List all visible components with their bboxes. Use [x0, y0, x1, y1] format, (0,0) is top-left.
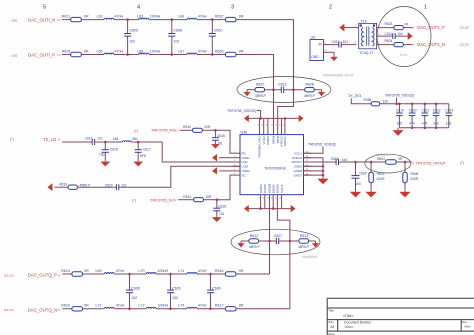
capacitor C620	[115, 184, 117, 190]
svg-text:]: ]	[255, 109, 256, 113]
svg-text:(12,13): (12,13)	[460, 43, 469, 47]
capacitor C608	[171, 20, 173, 34]
wire SC to pin	[217, 175, 233, 200]
wire seg	[197, 54, 225, 56]
svg-text:45R9-P: 45R9-P	[249, 245, 260, 249]
ferrite bead FB59	[371, 102, 380, 106]
wire SC seg	[204, 199, 217, 201]
svg-text:Title: Title	[328, 309, 334, 313]
svg-text:L62: L62	[97, 14, 103, 18]
svg-text:L70: L70	[139, 269, 145, 273]
svg-text:(10): (10)	[12, 54, 18, 58]
svg-text:DAC_OUT2_P: DAC_OUT2_P	[417, 25, 445, 30]
svg-text:R619: R619	[59, 183, 67, 187]
wire PD to pin	[215, 130, 232, 153]
svg-text:0R: 0R	[239, 304, 244, 308]
svg-text:A4: A4	[330, 325, 334, 329]
inductor L69	[104, 273, 114, 274]
svg-text:R604: R604	[377, 157, 385, 161]
capacitor C624	[355, 162, 357, 176]
resistor R605	[370, 162, 372, 172]
wire SC	[178, 199, 193, 201]
node junction C628 bottom	[128, 308, 131, 311]
wire seg	[149, 19, 187, 21]
inductor L63	[139, 18, 149, 19]
svg-text:47nH: 47nH	[198, 49, 207, 53]
svg-text:FB59: FB59	[364, 98, 372, 102]
wire PD	[180, 129, 193, 131]
svg-text:120: 120	[383, 100, 389, 104]
svg-text:T10: T10	[361, 20, 367, 24]
wire seg	[197, 273, 225, 275]
op-amp U40 TRF3705IRGE body	[240, 135, 304, 195]
resistor R619	[55, 186, 69, 188]
svg-text:47nH: 47nH	[116, 269, 125, 273]
gnd bus right	[322, 158, 324, 179]
wire BBIP jog	[278, 90, 294, 135]
svg-text:C616: C616	[217, 134, 225, 138]
wire C620 to LOM	[119, 166, 240, 187]
svg-text:(7): (7)	[132, 199, 136, 203]
wire VCC1 riser	[304, 147, 324, 153]
svg-text:C630: C630	[212, 287, 221, 291]
wire to DAC_OUT2_N	[403, 44, 412, 46]
svg-text:C626: C626	[218, 204, 226, 208]
capacitor C609	[127, 20, 129, 34]
svg-text:R623: R623	[385, 22, 393, 26]
top gnd rail	[249, 117, 300, 119]
svg-text:100nH: 100nH	[158, 304, 169, 308]
wire decoupling rail	[380, 103, 449, 105]
svg-text:105: 105	[396, 121, 402, 125]
svg-text:C614: C614	[445, 109, 453, 113]
ground C624	[355, 191, 357, 192]
capacitor C620	[411, 104, 413, 113]
ground arrow GND1	[216, 157, 218, 159]
svg-text:C621: C621	[421, 109, 429, 113]
wire TX_LO	[62, 141, 92, 143]
ground arrow GND2	[216, 170, 218, 172]
capacitor C614	[91, 139, 93, 145]
svg-text:#######(##) ## ##: #######(##) ## ##	[323, 73, 353, 77]
svg-text:0R: 0R	[84, 14, 89, 18]
svg-text:TX_3V3: TX_3V3	[348, 94, 361, 98]
capacitor C630	[210, 274, 212, 290]
svg-text:<Rev: <Rev	[464, 325, 472, 329]
wire DAC_OUTQ_P	[62, 273, 65, 275]
svg-text:##(#)###: ##(#)###	[376, 153, 390, 157]
svg-text:1p0: 1p0	[342, 158, 348, 162]
svg-text:47nH: 47nH	[198, 269, 207, 273]
annotation ellipse BBI match	[237, 77, 331, 103]
svg-text:C615: C615	[110, 148, 118, 152]
svg-text:510R: 510R	[377, 177, 386, 181]
node junction C610 top	[211, 18, 214, 21]
svg-text:0R: 0R	[239, 49, 244, 53]
svg-text:C620: C620	[409, 109, 417, 113]
svg-text:R625: R625	[62, 49, 71, 53]
ground arrow right BBQ	[309, 240, 316, 242]
wire DAC_OUTI_P	[62, 54, 65, 56]
svg-text:100nH: 100nH	[158, 269, 169, 273]
svg-text:(12,13): (12,13)	[4, 308, 14, 312]
ground R606	[404, 183, 406, 191]
node R605 junction	[370, 161, 373, 164]
svg-text:102: 102	[172, 296, 178, 300]
inductor L65	[104, 53, 114, 54]
title block frame	[327, 298, 474, 335]
transformer T10	[359, 23, 377, 48]
wire seg	[131, 141, 162, 143]
svg-text:DAC_OUTI_N: DAC_OUTI_N	[28, 17, 55, 22]
ground arrow left BBQ	[241, 240, 249, 242]
svg-text:]: ]	[413, 94, 414, 98]
svg-text:L72: L72	[96, 304, 102, 308]
ground R605	[370, 183, 372, 191]
inductor L67	[187, 53, 197, 54]
ground arrow right BBI	[314, 89, 321, 91]
pin 1 T10	[377, 27, 396, 29]
wire to BBIP riser	[236, 20, 293, 90]
svg-text:4: 4	[137, 5, 140, 11]
annotation ellipse BBQ match	[231, 229, 320, 255]
svg-text:5: 5	[43, 5, 46, 11]
capacitor C615	[104, 142, 106, 150]
svg-text:474: 474	[409, 121, 415, 125]
pin 3 T10	[377, 44, 396, 46]
capacitor C628	[129, 274, 131, 290]
bottom gnd rail	[249, 208, 292, 210]
svg-text:102: 102	[129, 39, 135, 43]
svg-text:(7): (7)	[134, 129, 138, 133]
svg-text:0R: 0R	[398, 157, 403, 161]
node BBQP junction	[289, 240, 292, 243]
ground arrow right C611	[407, 35, 409, 37]
node junction C608 bottom	[171, 53, 174, 56]
capacitor C612	[327, 44, 339, 46]
node BBQM junction	[268, 240, 271, 243]
svg-text:Rev: Rev	[462, 320, 468, 324]
capacitor C610	[211, 20, 213, 34]
svg-text:39n: 39n	[132, 137, 138, 141]
capacitor C627	[275, 238, 277, 245]
svg-text:R616: R616	[215, 269, 224, 273]
node C624 junction	[354, 161, 357, 164]
resistor R617	[225, 308, 236, 310]
svg-text:101: 101	[343, 40, 349, 44]
svg-text:47nH: 47nH	[115, 14, 124, 18]
svg-text:VCC1: VCC1	[294, 151, 302, 155]
ground U9	[333, 56, 335, 58]
svg-text:C617: C617	[143, 148, 151, 152]
wire seg	[114, 273, 146, 275]
node junction C629 bottom	[169, 308, 172, 311]
capacitor C617	[137, 142, 139, 150]
wire RFOUT	[304, 161, 337, 163]
svg-text:C608: C608	[173, 28, 182, 32]
svg-text:102: 102	[173, 39, 179, 43]
wire row to BBQP	[236, 308, 290, 310]
ground decoupling	[397, 128, 399, 131]
resistor R616	[225, 273, 236, 275]
svg-text:0R: 0R	[84, 304, 89, 308]
resistor R621	[65, 19, 104, 21]
resistor R606	[404, 162, 406, 172]
capacitor C622	[435, 104, 437, 113]
wire seg	[149, 54, 187, 56]
svg-text:R624: R624	[385, 39, 393, 43]
node junction C609 top	[126, 18, 129, 21]
resistor R614	[65, 273, 104, 275]
node PD junction	[214, 129, 217, 132]
svg-text:TRF3705_RFOUT: TRF3705_RFOUT	[416, 161, 447, 165]
svg-text:GND11: GND11	[283, 136, 287, 146]
wire seg	[197, 19, 225, 21]
svg-text:TRF3705IRGE: TRF3705IRGE	[264, 166, 287, 170]
inductor L68	[122, 141, 131, 142]
capacitor C623	[335, 159, 337, 165]
node C617 junction	[137, 141, 140, 144]
svg-text:2: 2	[329, 5, 332, 11]
capacitor C613	[280, 86, 282, 93]
svg-text:GND: GND	[311, 55, 319, 59]
ground arrow gnd bus	[322, 177, 324, 180]
wire DAC_OUTI_N	[62, 19, 65, 21]
pin 2 U9 to ground	[324, 52, 335, 55]
svg-text:GND7: GND7	[294, 173, 303, 177]
svg-text:TRF3705_VDD33: TRF3705_VDD33	[308, 143, 335, 147]
capacitor C616	[214, 130, 216, 137]
svg-text:L63: L63	[137, 14, 143, 18]
node junction C609 bottom	[126, 53, 129, 56]
junction gnd bus	[322, 165, 325, 168]
capacitor C621	[424, 104, 426, 113]
svg-text:3: 3	[231, 5, 234, 11]
right pin stubs U40	[304, 152, 312, 154]
svg-text:10n: 10n	[397, 32, 403, 36]
svg-text:(7): (7)	[10, 138, 14, 142]
svg-text:45R9-P: 45R9-P	[255, 94, 266, 98]
wire BBQP jog	[277, 195, 290, 309]
annotation ellipse RFOUT	[365, 154, 411, 173]
svg-text:C629: C629	[172, 287, 181, 291]
svg-text:GND5: GND5	[263, 184, 267, 193]
ground C617	[137, 160, 139, 163]
capacitor C614	[448, 104, 450, 113]
regulator U9 box	[310, 40, 324, 61]
wire to DAC_OUT2_P	[403, 27, 412, 29]
svg-text:C613: C613	[278, 83, 286, 87]
svg-text:C620: C620	[105, 183, 113, 187]
wire seg	[95, 141, 123, 143]
inductor L70	[146, 273, 156, 274]
wire seg	[114, 308, 146, 310]
svg-text:C609: C609	[129, 28, 138, 32]
svg-text:0R: 0R	[239, 14, 244, 18]
svg-text:47nH: 47nH	[198, 14, 207, 18]
svg-text:R606: R606	[411, 172, 419, 176]
wire row to BBQM	[236, 273, 269, 275]
svg-text:]: ]	[335, 143, 336, 147]
svg-text:U9: U9	[311, 36, 316, 40]
wire seg	[114, 19, 139, 21]
svg-text:C612: C612	[332, 40, 340, 44]
node junction C630 top	[209, 273, 212, 276]
inductor L74	[187, 307, 197, 308]
resistor R623	[394, 26, 404, 30]
inductor L66	[139, 53, 149, 54]
resistor R624	[394, 43, 404, 47]
resistor R626	[225, 54, 236, 56]
inductor L64	[187, 18, 197, 19]
svg-text:L69: L69	[96, 269, 102, 273]
svg-text:R622: R622	[215, 14, 224, 18]
rail stubs to IC top pins	[259, 118, 261, 134]
ground arrow R619	[51, 186, 53, 188]
svg-text:C610: C610	[214, 28, 223, 32]
svg-text:L66: L66	[137, 49, 143, 53]
inductor L62	[104, 18, 114, 19]
svg-text:L64: L64	[178, 14, 184, 18]
ground arrow T10 pin5	[343, 27, 345, 29]
wire PD seg	[203, 129, 216, 131]
node junction C608 top	[171, 18, 174, 21]
wire BBIM riser	[273, 90, 275, 135]
svg-text:0R: 0R	[84, 49, 89, 53]
svg-text:‹‹: ‹‹	[412, 25, 415, 30]
node BBIM junction	[272, 88, 275, 91]
capacitor C626	[216, 200, 218, 209]
svg-text:C614: C614	[85, 136, 93, 140]
svg-text:C619: C619	[396, 109, 404, 113]
svg-text:15p: 15p	[99, 153, 105, 157]
svg-text:0R: 0R	[239, 269, 244, 273]
junction brail	[259, 207, 262, 210]
node junction C628 top	[128, 273, 131, 276]
svg-text:L73: L73	[139, 304, 145, 308]
wire seg	[114, 54, 139, 56]
ground arrow left BBI	[247, 89, 255, 91]
ground C616	[214, 143, 216, 144]
svg-text:101: 101	[97, 136, 103, 140]
ground C626	[216, 216, 218, 219]
inductor L71	[187, 273, 197, 274]
svg-text:R610: R610	[183, 125, 191, 129]
svg-text:1n0: 1n0	[355, 182, 361, 186]
capacitor C611	[392, 33, 394, 39]
annotation circle around balun output	[377, 7, 431, 67]
svg-text:C627: C627	[274, 234, 282, 238]
wire TX_LO to LOP	[162, 142, 240, 162]
svg-text:#####(##): #####(##)	[302, 255, 317, 259]
resistor R625	[65, 54, 104, 56]
svg-text:TC4Q-1T: TC4Q-1T	[359, 51, 373, 55]
svg-text:››: ››	[57, 308, 61, 313]
svg-text:L67: L67	[178, 49, 184, 53]
svg-text:L68: L68	[113, 137, 119, 141]
svg-text:47nH: 47nH	[116, 304, 125, 308]
svg-text:103: 103	[446, 121, 452, 125]
capacitor C629	[170, 274, 172, 290]
node SC junction	[216, 198, 219, 201]
wire seg	[77, 186, 116, 188]
svg-text:(12,13): (12,13)	[460, 26, 469, 30]
svg-text:(7): (7)	[460, 161, 464, 165]
wire seg	[265, 89, 282, 91]
svg-text:10R: 10R	[205, 195, 212, 199]
wire label riser	[396, 98, 398, 104]
svg-text:L65: L65	[97, 49, 103, 53]
gnd arrow rail left	[248, 117, 250, 119]
gnd arrow brail right	[290, 208, 292, 210]
resistor R612	[249, 239, 259, 243]
pin 5 T10	[345, 27, 359, 29]
svg-text:Document Number: Document Number	[344, 321, 372, 325]
bottom pin stubs U40	[260, 195, 262, 209]
svg-text:R628: R628	[306, 83, 314, 87]
svg-text:47nH: 47nH	[198, 304, 207, 308]
capacitor C619	[398, 104, 400, 113]
svg-text:1: 1	[424, 5, 427, 11]
svg-text:C622: C622	[433, 109, 441, 113]
svg-text:45R9-P: 45R9-P	[304, 94, 315, 98]
wire TX_3V3 stub	[351, 98, 371, 104]
resistor R615	[65, 308, 104, 310]
svg-text:R615: R615	[61, 304, 70, 308]
wire seg	[396, 161, 411, 163]
svg-text:U40: U40	[241, 130, 248, 134]
svg-text:C611: C611	[385, 32, 393, 36]
svg-text:0R: 0R	[84, 269, 89, 273]
svg-text:10R: 10R	[204, 125, 211, 129]
svg-text:GND3: GND3	[266, 136, 270, 145]
wire seg	[259, 240, 277, 242]
svg-text:102: 102	[131, 296, 137, 300]
svg-text:GND9: GND9	[294, 165, 303, 169]
wire to BBIM riser	[236, 55, 273, 90]
pin 2 T10	[377, 35, 393, 37]
svg-text:C628: C628	[131, 287, 140, 291]
svg-text:DAC_OUTQ_P: DAC_OUTQ_P	[28, 273, 57, 278]
svg-text:100nH: 100nH	[150, 14, 161, 18]
svg-text:››: ››	[57, 18, 61, 23]
wire seg	[339, 161, 386, 163]
junction rail dots	[395, 103, 398, 106]
wire DAC_OUTQ_N	[62, 308, 65, 310]
svg-text:DAC_OUT2_N: DAC_OUT2_N	[417, 42, 445, 47]
svg-text:103: 103	[433, 121, 439, 125]
inductor L72	[104, 307, 114, 308]
wire seg	[156, 308, 187, 310]
svg-text:LOM: LOM	[242, 165, 249, 169]
node C615 junction	[104, 141, 107, 144]
svg-text:DAC_OUTQ_N: DAC_OUTQ_N	[28, 307, 57, 312]
svg-text:# # #: # # #	[400, 53, 407, 57]
svg-text:TRF3705_VDD33: TRF3705_VDD33	[385, 94, 413, 98]
svg-text:L71: L71	[178, 269, 184, 273]
node junction C629 top	[169, 273, 172, 276]
wire seg	[197, 308, 225, 310]
svg-text:101: 101	[219, 212, 225, 216]
resistor R622	[225, 19, 236, 21]
node junction C610 bottom	[211, 53, 214, 56]
resistor R613	[299, 239, 309, 243]
svg-text:R621: R621	[62, 14, 71, 18]
node BBIP junction	[292, 88, 295, 91]
svg-text:474: 474	[422, 121, 428, 125]
resistor R627	[255, 88, 265, 92]
svg-text:››: ››	[57, 53, 61, 58]
